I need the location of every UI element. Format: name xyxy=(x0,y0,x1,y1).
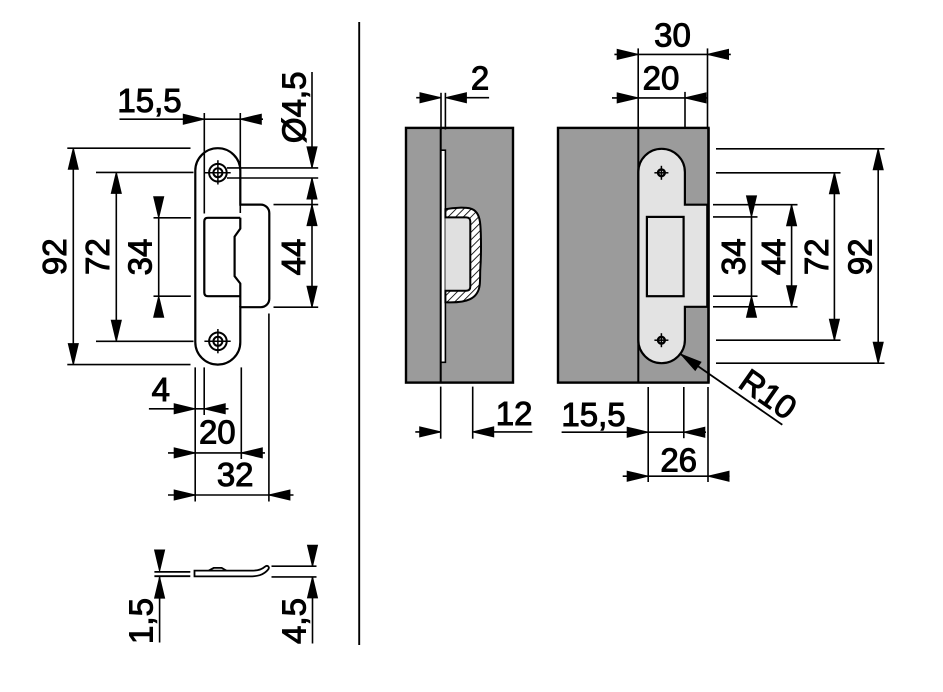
dimension 92 overall plate length, front view xyxy=(36,148,190,364)
latch cutout, mounted view xyxy=(647,217,684,296)
dimension 20 plate width, mounted view xyxy=(612,60,707,128)
formed dimple cross-section (hatched sheet) xyxy=(445,208,481,303)
svg-text:12: 12 xyxy=(496,395,533,432)
dimension 92 plate length, mounted view xyxy=(842,149,884,363)
svg-text:92: 92 xyxy=(36,238,73,275)
svg-text:32: 32 xyxy=(217,456,254,493)
dimension 20 plate width xyxy=(168,414,265,458)
dimension 44 lip height, mounted view xyxy=(755,205,797,307)
dimension 72 screw hole spacing, front view xyxy=(79,172,193,341)
svg-text:15,5: 15,5 xyxy=(117,82,181,119)
latch cutout with notch, and lip fold line xyxy=(204,218,240,307)
svg-text:20: 20 xyxy=(199,414,236,451)
svg-text:1,5: 1,5 xyxy=(123,598,160,644)
svg-text:4: 4 xyxy=(152,371,170,408)
extension lines below front view xyxy=(195,314,269,502)
dimension 26 mounted view xyxy=(623,387,730,482)
door edge corner line xyxy=(637,128,639,383)
dimension 34 cutout height, front view xyxy=(122,197,191,317)
dimension 4 cutout offset xyxy=(149,371,229,414)
top screw hole with countersink and crosshair xyxy=(204,160,230,184)
dimension 44 lip tab height, front view xyxy=(274,178,319,307)
dimension 12 pocket depth xyxy=(415,387,532,439)
svg-text:30: 30 xyxy=(654,17,691,54)
svg-text:26: 26 xyxy=(660,442,697,479)
dimension 4,5 lip height xyxy=(272,545,318,644)
top screw hole, mounted view xyxy=(654,166,668,180)
svg-text:92: 92 xyxy=(842,238,879,275)
door rect right edge redraw xyxy=(707,128,709,383)
svg-text:72: 72 xyxy=(79,238,116,275)
svg-text:44: 44 xyxy=(755,238,792,275)
door edge section: body xyxy=(406,128,513,383)
dimension 30 total mortise width xyxy=(614,17,730,128)
dimension Ø4,5 hole diameter xyxy=(227,72,318,199)
svg-text:4,5: 4,5 xyxy=(276,598,313,644)
mounted strike plate silhouette with lip area xyxy=(638,149,707,363)
svg-text:72: 72 xyxy=(798,238,835,275)
dimension 32 overall width with lip xyxy=(168,456,294,500)
dimension 15,5 mounted view xyxy=(561,387,706,482)
bottom screw hole with countersink and crosshair xyxy=(204,329,230,353)
bottom screw hole, mounted view xyxy=(654,333,668,347)
extension lines right of mounted view xyxy=(713,149,885,363)
door edge front: body xyxy=(558,128,709,383)
strike plate front view: outer silhouette with lip tab xyxy=(195,148,269,364)
svg-text:20: 20 xyxy=(643,60,680,97)
dimension 2 plate thickness, section view xyxy=(416,59,489,129)
plate cross-section strip xyxy=(441,150,446,362)
radius R10 leader with arrow xyxy=(681,354,804,426)
dimension 72 hole spacing, mounted view xyxy=(798,173,840,340)
profile view: dimple bump xyxy=(209,568,227,571)
svg-text:44: 44 xyxy=(275,239,312,276)
divider line between drawing halves xyxy=(358,22,360,645)
profile view: plate section with dimple and bent lip xyxy=(195,566,269,577)
svg-text:Ø4,5: Ø4,5 xyxy=(275,72,312,144)
door edge seam line at plate face xyxy=(440,128,442,383)
dimension 15,5 top of front view xyxy=(117,82,263,214)
svg-text:2: 2 xyxy=(471,59,489,96)
profile view: flat plate left segment (edge-on) xyxy=(154,572,190,576)
dimension 1,5 plate thickness xyxy=(123,550,165,644)
latch pocket cavity xyxy=(445,217,470,290)
svg-text:15,5: 15,5 xyxy=(561,396,625,433)
svg-text:34: 34 xyxy=(715,238,752,275)
svg-text:34: 34 xyxy=(122,239,159,276)
dimension 34 cutout height, mounted view xyxy=(715,196,757,317)
